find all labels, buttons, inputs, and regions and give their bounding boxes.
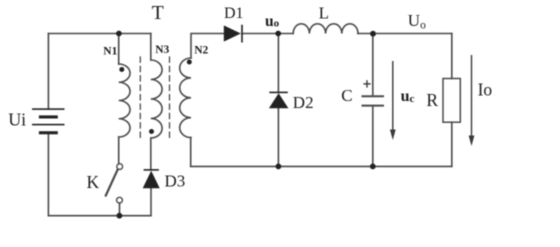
node K-bottom dot (117, 213, 123, 219)
svg-text:N1: N1 (103, 45, 117, 57)
wire N2 top lead and secondary top rail to D1 (191, 34, 224, 59)
transformer T core dashed line left (139, 57, 141, 140)
diode D2 (269, 93, 289, 108)
svg-text:Ui: Ui (8, 110, 26, 130)
capacitor plus sign (363, 83, 370, 85)
node C-bottom dot (370, 164, 376, 170)
wire D3 bottom lead (150, 188, 152, 216)
capacitor C plates (363, 95, 384, 97)
wire N1 bottom lead to switch (118, 137, 120, 164)
wire top-left rail (48, 33, 150, 35)
svg-text:uo: uo (265, 13, 280, 30)
wire bottom-left rail (48, 215, 150, 217)
node uo dot (275, 31, 281, 37)
wire N1 top lead (118, 34, 120, 65)
arrow Io (471, 55, 473, 143)
node D2-bottom dot (276, 164, 282, 170)
battery Ui plates (32, 108, 65, 110)
node L-C dot (370, 31, 376, 37)
transformer T core dashed line right (169, 57, 171, 140)
transformer T winding N1 (119, 64, 130, 137)
wire right vertical to R top (451, 34, 453, 79)
svg-text:D3: D3 (165, 171, 186, 190)
arrow u_c (392, 61, 394, 137)
svg-text:N2: N2 (194, 44, 208, 56)
inductor L (293, 24, 358, 34)
diode D1 (224, 25, 241, 41)
switch K (117, 164, 123, 170)
transformer T winding N2 (180, 58, 191, 138)
svg-text:L: L (319, 4, 329, 23)
wire N3 top lead (150, 34, 152, 61)
diode D3 (143, 171, 160, 189)
wire D2 bottom lead (277, 108, 279, 166)
svg-text:R: R (426, 90, 438, 110)
wire D1 cathode to L (242, 33, 293, 35)
transformer N2 polarity dot (187, 60, 192, 65)
wire C bottom lead (372, 106, 374, 166)
wire switch bottom lead (119, 203, 121, 216)
svg-text:C: C (341, 86, 352, 105)
svg-text:N3: N3 (155, 44, 169, 56)
wire battery bottom lead (47, 133, 49, 216)
svg-text:Io: Io (478, 79, 493, 99)
transformer T winding N3 (151, 60, 162, 138)
svg-text:T: T (152, 2, 164, 24)
wire R bottom lead (451, 122, 453, 166)
node dot top-left (116, 31, 122, 37)
resistor R body (443, 79, 460, 123)
wire C top lead (372, 34, 374, 96)
svg-text:Uo: Uo (408, 11, 426, 32)
wire N3 bottom lead to D3 (150, 138, 152, 170)
wire battery top lead (47, 34, 49, 110)
transformer N1 polarity dot (119, 67, 124, 72)
wire D2 top lead (277, 34, 279, 93)
svg-text:D1: D1 (224, 5, 244, 22)
wire secondary bottom rail (191, 165, 452, 167)
transformer N3 polarity dot (149, 129, 154, 134)
wire N2 bottom lead (190, 138, 192, 167)
svg-text:D2: D2 (293, 93, 314, 112)
svg-text:K: K (87, 172, 100, 192)
wire L to right corner (358, 33, 452, 35)
svg-text:uc: uc (401, 88, 415, 105)
